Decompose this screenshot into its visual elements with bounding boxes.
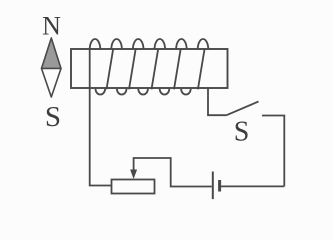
svg-text:S: S: [45, 101, 61, 133]
coil turn 4 front diagonal: [152, 49, 159, 89]
switch S blade (open): [227, 102, 259, 116]
svg-text:S: S: [234, 117, 250, 148]
coil turn 2 top arc: [111, 39, 122, 49]
compass needle north half (shaded): [42, 38, 62, 69]
coil turn 5 front diagonal: [174, 49, 181, 89]
rheostat slider arrowhead: [130, 170, 137, 180]
coil turn 5 bottom arc: [181, 89, 191, 95]
coil turn 3 front diagonal: [129, 49, 136, 89]
battery positive plate (long): [212, 172, 214, 200]
rheostat slider arrow shaft and wire to battery: [134, 158, 212, 187]
coil turn 2 bottom arc: [117, 89, 127, 95]
switch fixed contact and right wire: [262, 116, 284, 187]
rheostat box: [112, 180, 155, 194]
coil left lead wire: [90, 49, 112, 186]
coil turn 6 front diagonal: [198, 49, 205, 89]
battery negative plate (short): [218, 180, 221, 192]
coil turn 3 bottom arc: [138, 89, 148, 95]
coil turn 5 top arc: [176, 39, 187, 50]
wire battery to right riser: [220, 185, 285, 187]
coil turn 2 front diagonal: [107, 49, 114, 89]
coil turn 1 bottom arc: [96, 89, 106, 95]
coil turn 3 top arc: [133, 39, 144, 50]
coil turn 6 top arc: [198, 39, 209, 50]
coil turn 4 top arc: [155, 39, 166, 50]
svg-text:N: N: [42, 12, 61, 41]
compass needle south half (white): [42, 69, 62, 98]
coil right lead wire: [208, 88, 227, 115]
coil turn 1 top arc: [90, 39, 101, 50]
solenoid core (iron bar): [71, 49, 228, 88]
coil turn 4 bottom arc: [160, 89, 170, 95]
